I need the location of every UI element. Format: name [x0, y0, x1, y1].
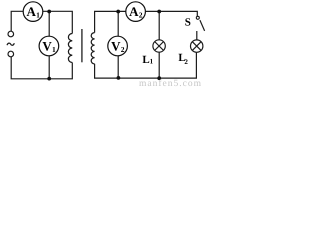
svg-text:V: V — [111, 39, 121, 54]
AC source tilde symbol — [7, 43, 14, 45]
switch S blade — [200, 20, 205, 31]
AC source terminal (top) — [8, 31, 14, 37]
node: junction dot V2 bottom — [117, 76, 121, 80]
wire: L1 branch lower — [158, 52, 160, 78]
wire: V2 branch lower — [117, 56, 119, 79]
wire: L2 branch from switch to lamp — [196, 31, 198, 40]
node: junction dot L1 top — [157, 10, 161, 14]
ammeter A1 — [23, 2, 43, 22]
wire: V2 branch upper — [117, 11, 119, 36]
lamp L1 — [153, 40, 165, 52]
wire: left loop top, corner to A1 — [11, 11, 23, 31]
svg-text:A: A — [129, 4, 139, 19]
node: junction dot bottom of V1 branch — [47, 77, 51, 81]
svg-text:2: 2 — [184, 58, 188, 66]
transformer core — [81, 29, 83, 62]
svg-text:1: 1 — [150, 58, 154, 66]
svg-text:A: A — [27, 4, 37, 19]
switch S contact circle — [196, 16, 199, 19]
wire: A1 right to V1 tap to top-right corner, down to coil top — [43, 11, 73, 33]
node: junction dot L1 bottom — [157, 76, 161, 80]
wire: right loop bottom — [95, 52, 197, 78]
svg-text:1: 1 — [52, 45, 56, 54]
node: junction dot top of V1 branch — [47, 10, 51, 14]
wire: A2 right to switch corner, down to switch contact — [145, 11, 197, 16]
wire: left loop bottom — [11, 57, 72, 79]
label L2 — [178, 52, 188, 66]
wire: V1 branch upper — [48, 11, 50, 36]
svg-text:S: S — [185, 17, 191, 29]
node: junction dot V2 top — [116, 10, 120, 14]
svg-text:manfen5.com: manfen5.com — [139, 79, 202, 87]
transformer primary coil — [68, 34, 72, 63]
voltmeter V2 — [108, 36, 128, 56]
wire: right loop left side + top to A2 — [95, 11, 126, 32]
svg-text:2: 2 — [139, 11, 143, 20]
label L1 — [142, 54, 153, 66]
AC source terminal (bottom) — [8, 51, 14, 57]
svg-text:1: 1 — [36, 11, 40, 20]
voltmeter V1 — [39, 36, 59, 56]
ammeter A2 — [126, 2, 146, 22]
svg-text:2: 2 — [121, 45, 125, 54]
wire: V1 branch lower — [48, 56, 50, 79]
wire: L1 branch upper — [158, 11, 160, 39]
svg-text:V: V — [42, 39, 52, 54]
lamp L2 — [191, 40, 203, 52]
transformer secondary coil — [91, 33, 94, 64]
